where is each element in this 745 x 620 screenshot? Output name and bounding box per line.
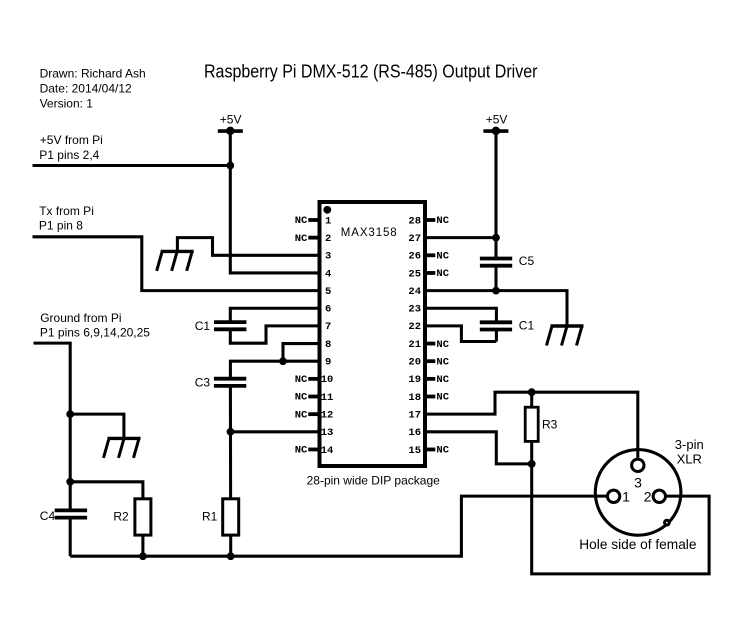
- svg-text:22: 22: [408, 321, 421, 333]
- svg-text:15: 15: [408, 445, 421, 457]
- wire pin 27: [425, 236, 497, 239]
- XLR latch notch: [665, 520, 670, 525]
- pin 26 NC stub: [427, 253, 436, 257]
- wire R2 bottom: [141, 535, 144, 556]
- svg-text:C1: C1: [195, 319, 211, 333]
- svg-text:27: 27: [408, 233, 421, 245]
- svg-text:4: 4: [325, 268, 331, 280]
- pin 18 NC stub: [427, 395, 436, 399]
- svg-text:28-pin wide DIP package: 28-pin wide DIP package: [307, 474, 441, 488]
- svg-text:P1 pins 6,9,14,20,25: P1 pins 6,9,14,20,25: [40, 325, 150, 339]
- svg-text:NC: NC: [436, 356, 449, 368]
- wire pin 16 jog: [425, 432, 532, 464]
- wire pin 13: [231, 430, 320, 433]
- +5V supply symbol (left): [218, 127, 243, 136]
- svg-text:NC: NC: [436, 251, 449, 263]
- svg-text:13: 13: [321, 427, 334, 439]
- junction R2 bottom: [139, 552, 147, 560]
- XLR pin 2 hole: [653, 490, 665, 502]
- svg-text:P1 pin 8: P1 pin 8: [39, 219, 83, 233]
- svg-text:20: 20: [408, 357, 421, 369]
- svg-text:NC: NC: [436, 215, 449, 227]
- wire C5 bottom: [494, 266, 497, 291]
- svg-text:3-pin: 3-pin: [675, 437, 704, 452]
- capacitor C1 (left): [214, 322, 246, 329]
- wire R3 to XLR pin 2: [532, 464, 709, 574]
- svg-text:Tx from Pi: Tx from Pi: [39, 204, 94, 218]
- svg-text:NC: NC: [436, 268, 449, 280]
- ground (right): [547, 326, 584, 346]
- svg-text:6: 6: [325, 304, 331, 316]
- wire +5V rail to C5: [494, 131, 497, 259]
- junction R1 bottom: [227, 552, 235, 560]
- wire pin 3 to ground: [177, 238, 319, 256]
- junction R3 bottom: [528, 460, 536, 468]
- junction C5 pin 24: [492, 287, 500, 295]
- wire C3 to R1: [229, 386, 232, 499]
- wire +5V from Pi: [33, 164, 231, 167]
- svg-text:+5V: +5V: [486, 113, 508, 127]
- pin 14 NC stub: [308, 448, 318, 452]
- svg-text:NC: NC: [436, 445, 449, 457]
- svg-text:2: 2: [644, 488, 652, 504]
- wire C1 to pin 7: [230, 326, 319, 343]
- ground (near Tx): [157, 251, 194, 271]
- wire ground from Pi: [34, 343, 71, 510]
- svg-text:19: 19: [408, 374, 421, 386]
- svg-text:28: 28: [408, 215, 421, 227]
- junction R3 top: [528, 388, 536, 396]
- +5V supply symbol (right): [483, 127, 508, 136]
- XLR pin 3 hole: [632, 459, 644, 471]
- svg-text:NC: NC: [295, 233, 308, 245]
- svg-text:17: 17: [408, 409, 421, 421]
- wire pin 6 to C1: [230, 308, 319, 322]
- XLR pin 1 hole: [607, 490, 619, 502]
- wire +5V rail to pin 4: [230, 131, 319, 273]
- svg-text:14: 14: [321, 445, 334, 457]
- capacitor C1 (right): [480, 322, 512, 329]
- svg-text:10: 10: [321, 374, 334, 386]
- svg-text:9: 9: [325, 357, 331, 369]
- svg-text:24: 24: [408, 286, 421, 298]
- wire pin 24 to ground: [425, 291, 568, 326]
- wire pin 17 to R3 and XLR pin 3: [425, 392, 638, 457]
- svg-text:Raspberry Pi DMX-512 (RS-485): Raspberry Pi DMX-512 (RS-485) Output Dri…: [204, 61, 538, 82]
- resistor R2: [135, 499, 151, 535]
- svg-text:R1: R1: [202, 509, 218, 523]
- svg-text:23: 23: [408, 304, 421, 316]
- svg-text:25: 25: [408, 268, 421, 280]
- wire pin 9 to C3: [230, 361, 319, 379]
- pin 2 NC stub: [308, 236, 318, 240]
- op-amp U1 MAX3158 IC body: [320, 202, 426, 466]
- svg-text:C4: C4: [40, 509, 56, 523]
- wire pin 8 jog: [283, 344, 320, 362]
- pin 11 NC stub: [308, 395, 318, 399]
- svg-text:P1 pins 2,4: P1 pins 2,4: [39, 148, 99, 162]
- junction +5V feed: [226, 162, 234, 170]
- svg-text:1: 1: [325, 215, 331, 227]
- svg-text:3: 3: [325, 251, 331, 263]
- svg-text:1: 1: [622, 488, 630, 504]
- svg-text:16: 16: [408, 427, 421, 439]
- svg-text:NC: NC: [295, 374, 308, 386]
- svg-text:Hole side of female: Hole side of female: [579, 537, 696, 552]
- pin 25 NC stub: [427, 271, 436, 275]
- resistor R1: [223, 499, 239, 535]
- svg-text:R2: R2: [113, 509, 129, 523]
- wire to R2 top: [70, 482, 143, 499]
- pin 1 marker dot: [323, 206, 331, 214]
- svg-text:+5V from Pi: +5V from Pi: [40, 133, 103, 147]
- svg-text:NC: NC: [436, 392, 449, 404]
- svg-text:Drawn: Richard Ash: Drawn: Richard Ash: [40, 67, 146, 81]
- junction pin 27 rail: [492, 234, 500, 242]
- svg-text:5: 5: [325, 286, 331, 298]
- svg-text:NC: NC: [295, 445, 308, 457]
- ground (from Pi): [104, 438, 141, 458]
- svg-text:11: 11: [321, 392, 334, 404]
- wire R3 top stub: [530, 392, 533, 407]
- pin 10 NC stub: [308, 377, 318, 381]
- pin 19 NC stub: [427, 377, 436, 381]
- wire Tx to pin 5: [33, 237, 320, 291]
- svg-text:C1: C1: [519, 318, 535, 332]
- pin 28 NC stub: [427, 218, 436, 222]
- pin 15 NC stub: [427, 448, 436, 452]
- pin 21 NC stub: [427, 342, 436, 346]
- svg-text:C3: C3: [195, 376, 211, 390]
- svg-text:C5: C5: [519, 254, 535, 268]
- svg-text:Version: 1: Version: 1: [40, 97, 94, 111]
- resistor R3 body: [525, 407, 538, 441]
- svg-text:MAX3158: MAX3158: [341, 227, 398, 239]
- svg-text:NC: NC: [295, 215, 308, 227]
- svg-text:12: 12: [321, 409, 334, 421]
- svg-text:NC: NC: [295, 409, 308, 421]
- junction pin 8 tap: [279, 357, 287, 365]
- pin 1 NC stub: [308, 218, 318, 222]
- svg-text:7: 7: [325, 321, 331, 333]
- wire R1 bottom: [229, 535, 232, 556]
- svg-text:NC: NC: [436, 374, 449, 386]
- XLR connector body circle: [595, 450, 681, 536]
- svg-text:R3: R3: [542, 418, 558, 432]
- svg-text:NC: NC: [436, 339, 449, 351]
- svg-text:Ground from Pi: Ground from Pi: [40, 311, 121, 325]
- wire R3 bottom stub: [530, 441, 533, 464]
- capacitor C4: [55, 510, 87, 517]
- svg-text:21: 21: [408, 339, 421, 351]
- wire C4 bottom: [69, 517, 72, 556]
- wire ground bus to XLR pin 1: [70, 496, 606, 556]
- pin 20 NC stub: [427, 359, 436, 363]
- wire pin 23 to C1: [425, 308, 497, 322]
- svg-text:8: 8: [325, 339, 331, 351]
- wire C1 bottom stub: [495, 330, 498, 342]
- svg-text:+5V: +5V: [220, 113, 242, 127]
- capacitor C3: [214, 379, 246, 386]
- wire pin 22 jog: [425, 326, 497, 342]
- svg-text:NC: NC: [295, 392, 308, 404]
- junction pin 13 tap: [227, 428, 235, 436]
- svg-text:2: 2: [325, 233, 331, 245]
- junction R2 branch: [66, 478, 74, 486]
- wire to ground symbol: [70, 414, 124, 438]
- svg-text:XLR: XLR: [677, 452, 702, 467]
- svg-text:3: 3: [634, 475, 642, 491]
- svg-text:26: 26: [408, 251, 421, 263]
- junction ground branch: [66, 410, 74, 418]
- svg-text:18: 18: [408, 392, 421, 404]
- capacitor C5: [480, 259, 512, 266]
- svg-text:Date: 2014/04/12: Date: 2014/04/12: [40, 82, 132, 96]
- pin 12 NC stub: [308, 412, 318, 416]
